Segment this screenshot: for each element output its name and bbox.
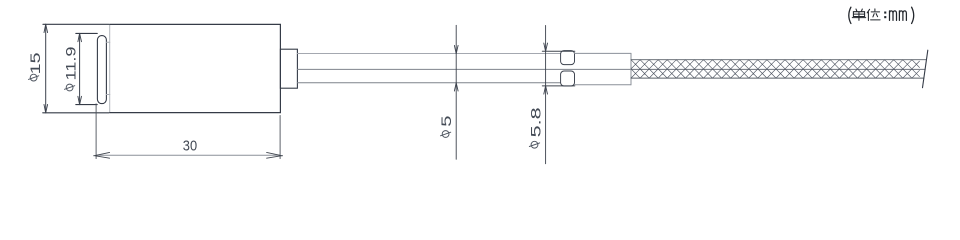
sheath right edge <box>630 53 632 84</box>
braid top edge <box>631 59 926 61</box>
arrowhead phi5.8 up <box>544 86 548 94</box>
close paren <box>912 7 914 23</box>
braid bottom edge <box>631 77 924 79</box>
dimension line phi15 <box>45 24 47 113</box>
sheath top edge <box>575 52 632 54</box>
cable middle line <box>297 68 631 70</box>
kanji i (rank) <box>867 9 880 21</box>
sensor pill element <box>97 36 106 104</box>
dimension line phi11.9 <box>79 33 81 104</box>
dimension line phi5.8 <box>545 26 547 164</box>
arrowhead phi15 bottom <box>44 105 48 113</box>
30 dim extension left <box>95 104 97 159</box>
phi5.8 extension bottom <box>542 85 575 87</box>
cable top edge <box>297 53 560 55</box>
gray tick top <box>106 41 109 43</box>
sheath bottom edge <box>575 84 632 86</box>
cap bottom edge with dim extension <box>43 112 109 114</box>
inner cap bottom edge with dim extension <box>76 104 97 106</box>
label phi5 <box>439 115 454 137</box>
cable break line <box>923 50 928 87</box>
arrowhead phi5 down <box>454 45 458 53</box>
open paren <box>849 7 851 23</box>
crimp sleeve top <box>561 51 575 65</box>
dimension line phi5 <box>455 25 457 159</box>
fullwidth colon <box>884 12 886 19</box>
unit note <box>849 7 914 23</box>
braid mesh pattern <box>631 60 920 78</box>
arrowhead phi15 top <box>44 24 48 32</box>
label phi15 <box>28 52 43 81</box>
30 arrowhead left <box>94 152 110 158</box>
body outline <box>110 24 281 112</box>
30 dimension line <box>96 154 280 156</box>
svg-text:5: 5 <box>439 115 454 127</box>
kanji tan (unit) <box>852 9 865 20</box>
cap top edge with dim extension <box>43 23 109 25</box>
arrowhead phi5.8 down <box>544 43 548 51</box>
svg-text:30: 30 <box>183 138 197 155</box>
phi5.8 extension top <box>542 50 575 52</box>
crimp sleeve bottom <box>561 71 575 86</box>
cable bottom edge <box>297 82 560 84</box>
neck bushing <box>280 49 297 88</box>
svg-text:11.9: 11.9 <box>63 47 78 81</box>
arrowhead phi5 up <box>454 83 458 91</box>
label phi11.9 <box>63 47 78 91</box>
30 dim extension right <box>279 116 281 159</box>
svg-text:5.8: 5.8 <box>529 107 544 138</box>
inner cap top edge with dim extension <box>76 32 98 34</box>
label phi5.8 <box>529 107 544 148</box>
letter m first <box>890 11 897 21</box>
30 arrowhead right <box>267 152 283 158</box>
svg-text:15: 15 <box>28 52 43 74</box>
cap body divider <box>109 24 111 112</box>
cable middle line mesh section <box>631 68 925 70</box>
gray tick bottom <box>106 94 109 96</box>
arrowhead phi11.9 bottom <box>78 96 82 104</box>
arrowhead phi11.9 top <box>78 33 82 41</box>
letter m second <box>899 11 906 21</box>
